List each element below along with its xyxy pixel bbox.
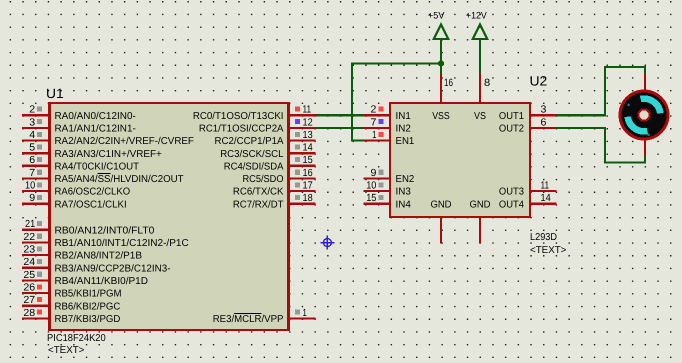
svg-text:VSS: VSS — [432, 111, 450, 122]
wire: +5V net horizontal segment into U2 EN1 — [351, 139, 364, 141]
svg-text:L293D: L293D — [530, 232, 557, 243]
U1 pin 26 (RB5/KBI1/PGM) left pin wire, state square, number, name — [22, 282, 122, 299]
svg-text:3: 3 — [29, 117, 35, 128]
svg-text:14: 14 — [303, 143, 313, 154]
U2 pin 15 (IN4) left pin wire, state square, number, name — [364, 193, 412, 210]
svg-text:5: 5 — [29, 143, 35, 154]
svg-text:GND: GND — [469, 199, 490, 210]
U2 pin 9 (EN2) left pin wire, state square, number, name — [364, 168, 415, 185]
svg-text:16: 16 — [303, 168, 313, 179]
svg-text:RB4/AN11/KBI0/P1D: RB4/AN11/KBI0/P1D — [55, 276, 149, 287]
svg-text:27: 27 — [23, 295, 35, 306]
U1 pin 28 (RB7/KBI3/PGD) left pin wire, state square, number, name — [22, 308, 120, 325]
svg-text:EN2: EN2 — [396, 174, 415, 185]
U1 pin 18 (RC7/RX/DT) right pin wire, state square, number, name — [233, 193, 316, 210]
svg-text:16: 16 — [444, 77, 453, 89]
svg-text:OUT4: OUT4 — [499, 199, 525, 210]
U1 pin 24 (RB3/AN9/CCP2B/C12IN3-) left pin wire, state square, number, name — [22, 257, 171, 274]
svg-text:6: 6 — [541, 117, 547, 128]
svg-text:IN4: IN4 — [396, 199, 412, 210]
svg-text:3: 3 — [541, 105, 547, 116]
U2 pin 14 (OUT4) right pin wire, number, name — [499, 193, 557, 210]
svg-text:RC1/T1OSI/CCP2A: RC1/T1OSI/CCP2A — [199, 124, 284, 135]
svg-text:2: 2 — [29, 105, 35, 116]
svg-text:10: 10 — [25, 181, 35, 192]
U2 pin 8 (VS) top pin wire, number, name — [474, 73, 490, 122]
U1 pin 3 (RA1/AN1/C12IN1-) left pin wire, state square, number, name — [22, 117, 136, 134]
svg-text:RA2/AN2/C2IN+/VREF-/CVREF: RA2/AN2/C2IN+/VREF-/CVREF — [55, 136, 194, 147]
svg-text:RB3/AN9/CCP2B/C12IN3-: RB3/AN9/CCP2B/C12IN3- — [55, 263, 171, 274]
U1 pin 17 (RC6/TX/CK) right pin wire, state square, number, name — [233, 181, 316, 198]
U2 pin 6 (OUT2) right pin wire, number, name — [499, 117, 557, 134]
svg-text:17: 17 — [303, 181, 313, 192]
power symbol +5V arrow — [428, 10, 448, 39]
U1 pin 10 (RA6/OSC2/CLKO) left pin wire, state square, number, name — [22, 181, 130, 198]
svg-text:<TEXT>: <TEXT> — [530, 245, 567, 256]
svg-text:12: 12 — [303, 117, 313, 128]
svg-text:RB0/AN12/INT0/FLT0: RB0/AN12/INT0/FLT0 — [55, 225, 155, 236]
wire: +5V net vertical segment down to EN1 row — [351, 62, 353, 140]
svg-text:10: 10 — [366, 181, 376, 192]
svg-text:+5V: +5V — [428, 10, 445, 21]
svg-text:IN3: IN3 — [396, 187, 412, 198]
U1 pin 23 (RB2/AN8/INT2/P1B) left pin wire, state square, number, name — [22, 245, 142, 262]
origin / untraced marker crosshair — [321, 236, 335, 250]
U1 pin 2 (RA0/AN0/C12IN0-) left pin wire, state square, number, name — [22, 105, 136, 122]
U2 pin 4 (GND) bottom pin wire and name — [430, 199, 451, 243]
svg-text:13: 13 — [303, 130, 313, 141]
U1 pin 7 (RA5/AN4/SS/HLVDIN/C2OUT) left pin wire, state square, number, name — [22, 168, 184, 185]
U2 pin 7 (IN2) left pin wire, state square, number, name — [364, 117, 412, 134]
wire: U2 OUT1 to motor top (right, up, over, down) — [556, 67, 646, 115]
svg-text:RA7/OSC1/CLKI: RA7/OSC1/CLKI — [55, 199, 127, 210]
wire: U1 pin 12 RC1 to U2 pin 7 IN2 — [316, 127, 364, 129]
svg-text:PIC18F24K20: PIC18F24K20 — [47, 333, 106, 344]
U1 pin 4 (RA2/AN2/C2IN+/VREF-/CVREF) left pin wire, state square, number, name — [22, 130, 194, 147]
svg-text:OUT2: OUT2 — [499, 124, 525, 135]
U2 pin 5 (GND) bottom pin wire and name — [469, 199, 490, 243]
svg-text:28: 28 — [23, 308, 35, 319]
svg-text:25: 25 — [23, 270, 35, 281]
U1 pin 12 (RC1/T1OSI/CCP2A) right pin wire, state square, number, name — [199, 117, 316, 134]
svg-text:IN2: IN2 — [396, 124, 412, 135]
svg-text:14: 14 — [541, 193, 551, 204]
U1 pin 13 (RC2/CCP1/P1A) right pin wire, state square, number, name — [215, 130, 316, 147]
svg-text:OUT3: OUT3 — [499, 187, 525, 198]
svg-text:RA4/T0CKI/C1OUT: RA4/T0CKI/C1OUT — [55, 161, 140, 172]
svg-text:15: 15 — [303, 155, 313, 166]
svg-text:1: 1 — [372, 130, 376, 141]
U1 pin 11 (RC0/T1OSO/T13CKI) right pin wire, state square, number, name — [193, 105, 316, 122]
svg-text:9: 9 — [371, 168, 377, 179]
svg-text:RB1/AN10/INT1/C12IN2-/P1C: RB1/AN10/INT1/C12IN2-/P1C — [55, 238, 189, 249]
svg-text:U2: U2 — [530, 74, 548, 89]
svg-text:RC2/CCP1/P1A: RC2/CCP1/P1A — [215, 136, 284, 147]
U1 pin 25 (RB4/AN11/KBI0/P1D) left pin wire, state square, number, name — [22, 270, 148, 287]
U1 pin 27 (RB6/KBI2/PGC) left pin wire, state square, number, name — [22, 295, 120, 312]
U1 pin 1 (RE3/MCLR/VPP) right pin wire, state square, number, name — [213, 308, 316, 325]
IC U2 L293D body — [389, 102, 531, 218]
U2 pin 11 (OUT3) right pin wire, number, name — [499, 181, 557, 198]
wire: +5V net horizontal segment to junction — [352, 62, 441, 64]
svg-text:18: 18 — [303, 193, 313, 204]
svg-text:22: 22 — [23, 232, 35, 243]
motor M1 (DC motor symbol) with top and bottom pin stubs — [620, 74, 668, 156]
svg-text:15: 15 — [366, 193, 376, 204]
wire: +12V arrow to VS vertical segment — [479, 39, 481, 74]
U2 pin 1 (EN1) left pin wire, state square, number, name — [364, 130, 415, 147]
svg-text:RC6/TX/CK: RC6/TX/CK — [233, 187, 284, 198]
svg-text:OUT1: OUT1 — [499, 111, 525, 122]
wire: +5V arrow to VSS vertical segment — [440, 39, 442, 74]
U2 pin 3 (OUT1) right pin wire, number, name — [499, 105, 557, 122]
svg-text:RC0/T1OSO/T13CKI: RC0/T1OSO/T13CKI — [193, 111, 284, 122]
U1 pin 5 (RA3/AN3/C1IN+/VREF+) left pin wire, state square, number, name — [22, 143, 162, 160]
U1 pin 21 (RB0/AN12/INT0/FLT0) left pin wire, state square, number, name — [22, 219, 155, 236]
svg-text:8: 8 — [484, 77, 490, 89]
U2 pin 2 (IN1) left pin wire, state square, number, name — [364, 105, 412, 122]
svg-text:RC5/SDO: RC5/SDO — [243, 174, 284, 185]
U2 pin 16 (VSS) top pin wire, number, name — [432, 73, 453, 122]
svg-text:RA0/AN0/C12IN0-: RA0/AN0/C12IN0- — [55, 111, 136, 122]
junction: +5V net at VSS column — [438, 60, 444, 66]
U1 pin 9 (RA7/OSC1/CLKI) left pin wire, state square, number, name — [22, 193, 127, 210]
U1 pin 6 (RA4/T0CKI/C1OUT) left pin wire, state square, number, name — [22, 155, 139, 172]
svg-text:VS: VS — [474, 111, 486, 122]
svg-text:U1: U1 — [46, 86, 64, 101]
U1 pin 16 (RC5/SDO) right pin wire, state square, number, name — [243, 168, 316, 185]
svg-text:7: 7 — [371, 117, 377, 128]
svg-text:11: 11 — [303, 105, 312, 116]
svg-text:RA5/AN4/SS/HLVDIN/C2OUT: RA5/AN4/SS/HLVDIN/C2OUT — [55, 174, 184, 185]
svg-text:24: 24 — [23, 257, 35, 268]
IC U1 PIC18F24K20 body — [48, 102, 290, 331]
power symbol +12V arrow — [466, 10, 487, 39]
svg-text:RA6/OSC2/CLKO: RA6/OSC2/CLKO — [55, 187, 131, 198]
svg-text:RB6/KBI2/PGC: RB6/KBI2/PGC — [55, 301, 121, 312]
svg-text:2: 2 — [371, 105, 377, 116]
svg-text:11: 11 — [541, 181, 550, 192]
svg-text:21: 21 — [25, 219, 35, 230]
U1 pin 14 (RC3/SCK/SCL) right pin wire, state square, number, name — [220, 143, 315, 160]
svg-text:EN1: EN1 — [396, 136, 415, 147]
svg-text:RC7/RX/DT: RC7/RX/DT — [233, 199, 284, 210]
svg-text:26: 26 — [23, 282, 35, 293]
svg-text:GND: GND — [430, 199, 451, 210]
svg-text:RC4/SDI/SDA: RC4/SDI/SDA — [224, 161, 284, 172]
U2 pin 10 (IN3) left pin wire, state square, number, name — [364, 181, 412, 198]
svg-text:1: 1 — [303, 308, 307, 319]
wire: U1 pin 11 RC0 to U2 pin 2 IN1 — [316, 114, 364, 116]
svg-text:7: 7 — [29, 168, 35, 179]
U1 pin 22 (RB1/AN10/INT1/C12IN2-/P1C) left pin wire, state square, number, name — [22, 232, 189, 249]
svg-text:<TEXT>: <TEXT> — [48, 345, 85, 356]
wire: U2 OUT2 to motor bottom (right, down, over, up) — [556, 128, 646, 163]
svg-text:9: 9 — [29, 193, 35, 204]
svg-text:RA3/AN3/C1IN+/VREF+: RA3/AN3/C1IN+/VREF+ — [55, 149, 162, 160]
svg-text:IN1: IN1 — [396, 111, 412, 122]
svg-text:RB5/KBI1/PGM: RB5/KBI1/PGM — [55, 289, 122, 300]
svg-text:6: 6 — [29, 155, 35, 166]
U1 pin 15 (RC4/SDI/SDA) right pin wire, state square, number, name — [224, 155, 316, 172]
svg-text:RC3/SCK/SCL: RC3/SCK/SCL — [220, 149, 284, 160]
svg-text:RE3/MCLR/VPP: RE3/MCLR/VPP — [213, 314, 284, 325]
svg-text:RB2/AN8/INT2/P1B: RB2/AN8/INT2/P1B — [55, 251, 143, 262]
svg-text:RB7/KBI3/PGD: RB7/KBI3/PGD — [55, 314, 121, 325]
svg-text:23: 23 — [23, 245, 35, 256]
svg-text:+12V: +12V — [466, 10, 487, 21]
svg-text:RA1/AN1/C12IN1-: RA1/AN1/C12IN1- — [55, 124, 136, 135]
svg-text:4: 4 — [29, 130, 35, 141]
